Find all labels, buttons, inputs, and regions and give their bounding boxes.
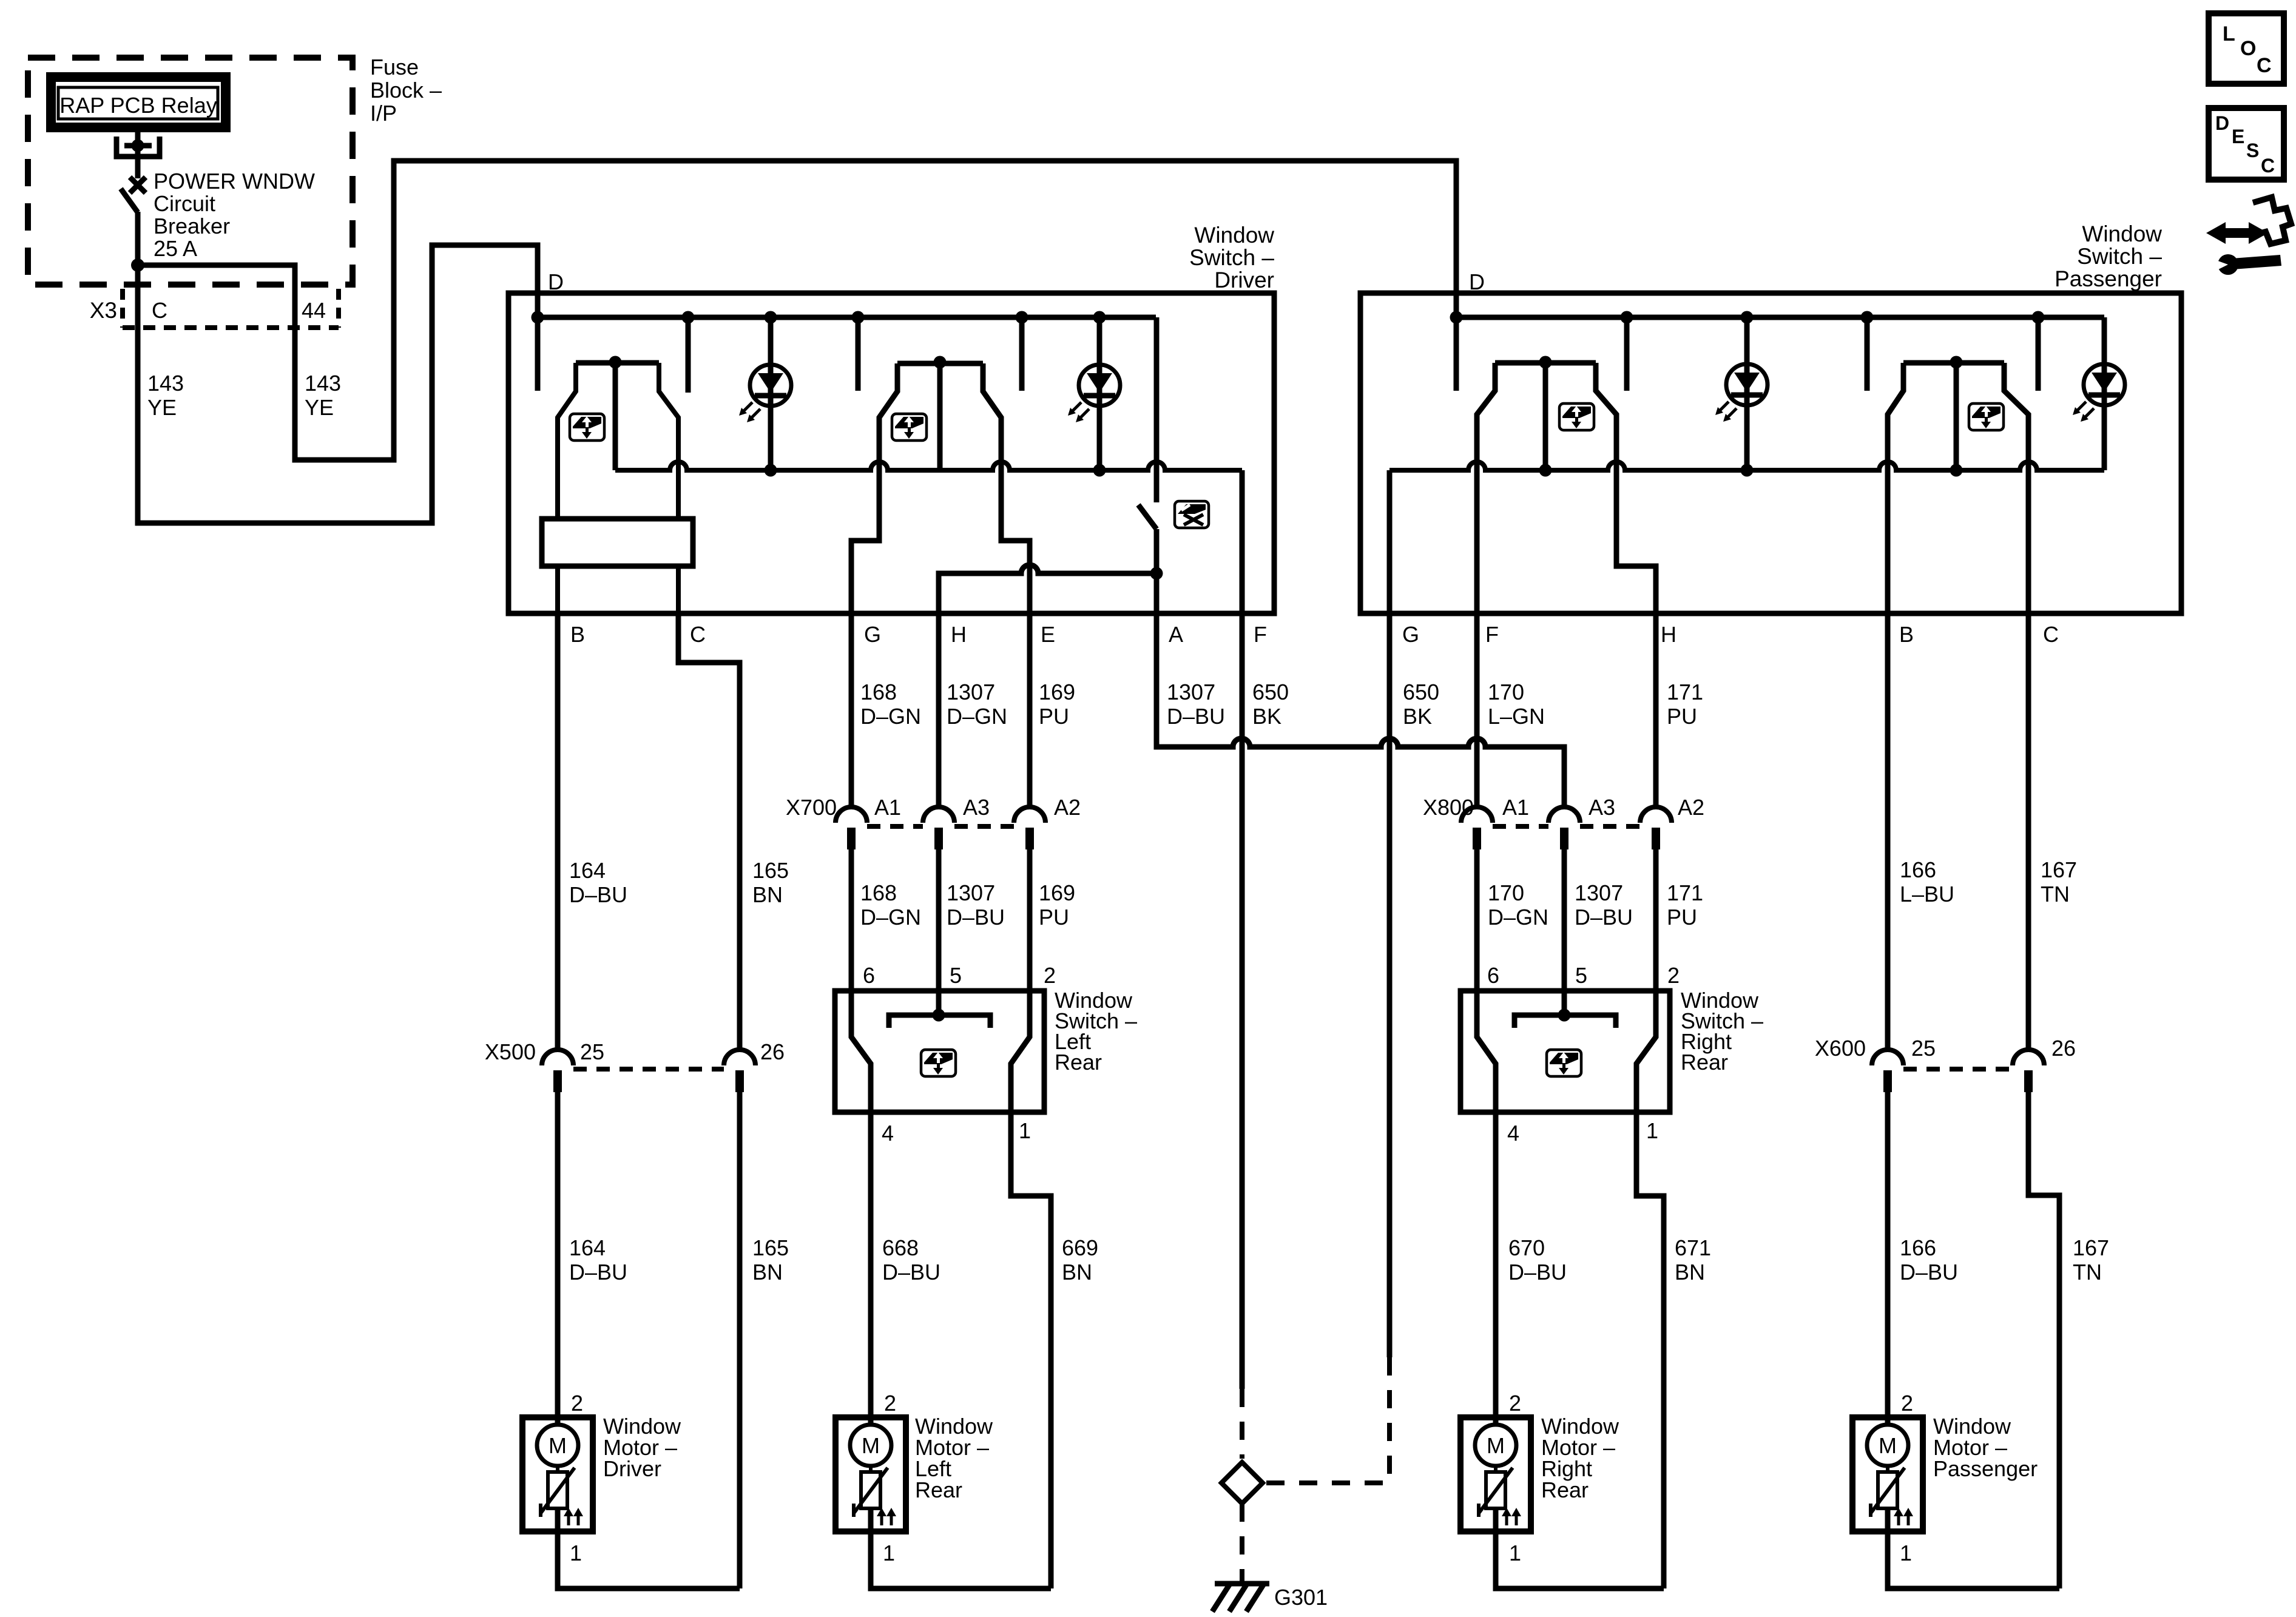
wire to driver switch D [138,245,538,523]
svg-text:A1: A1 [1502,795,1529,820]
wire 171 PU (H passenger) [1653,613,1659,807]
Window Motor - Right Rear [1493,1417,1499,1426]
svg-text:166: 166 [1900,1235,1936,1260]
svg-text:2: 2 [884,1391,896,1416]
svg-text:BN: BN [752,882,783,907]
X700 pin at 1547 [923,807,954,823]
LOC icon box [2209,13,2284,84]
splice diamond [1221,1462,1263,1504]
wire H-A 1307 net [939,565,1156,613]
svg-text:BK: BK [1252,704,1281,729]
LED passenger 1 [1726,364,1768,405]
svg-text:A2: A2 [1054,795,1081,820]
svg-text:POWER WNDW: POWER WNDW [154,169,315,194]
svg-text:PU: PU [1039,704,1069,729]
svg-text:D–GN: D–GN [860,704,921,729]
navigation arrow-wrench icon [2206,197,2291,275]
svg-text:1: 1 [1646,1118,1658,1143]
svg-text:D: D [2215,112,2229,134]
svg-text:Breaker: Breaker [154,214,230,238]
svg-text:2: 2 [1044,963,1056,988]
Window Motor - Passenger [1885,1417,1891,1426]
X600 pin 25 [1872,1050,1903,1065]
svg-text:171: 171 [1667,880,1703,905]
svg-text:669: 669 [1062,1235,1098,1260]
svg-text:Rear: Rear [1541,1477,1589,1502]
rocker switch driver window [576,360,659,366]
svg-text:D–BU: D–BU [1167,704,1225,729]
wire 650 BK (G passenger) [1387,613,1393,1357]
svg-text:E: E [2232,126,2244,147]
Window Switch - Driver box [508,293,1274,613]
svg-text:D–BU: D–BU [947,905,1005,930]
svg-text:Driver: Driver [1214,268,1274,292]
svg-text:Window: Window [1194,223,1274,248]
svg-text:Block –: Block – [370,78,442,103]
svg-text:D–BU: D–BU [569,882,627,907]
svg-text:A2: A2 [1678,795,1704,820]
svg-text:170: 170 [1488,680,1524,704]
X500 pin 25 [542,1050,573,1065]
svg-text:1307: 1307 [1575,880,1623,905]
svg-text:650: 650 [1252,680,1289,704]
svg-text:143: 143 [305,371,341,396]
connector X3 [120,289,125,328]
svg-text:2: 2 [1667,963,1680,988]
svg-text:H: H [951,622,967,647]
svg-text:H: H [1661,622,1676,647]
LED passenger 2 [2084,364,2125,405]
svg-text:Passenger: Passenger [2055,266,2162,291]
LED wire p2 [2102,317,2107,470]
svg-text:Rear: Rear [1681,1050,1728,1075]
X700 pin at 1697 [1014,807,1045,823]
passenger rocker 1 icon [1559,403,1594,430]
svg-text:668: 668 [882,1235,919,1260]
Window Motor - Driver [555,1417,561,1426]
svg-text:167: 167 [2073,1235,2109,1260]
svg-text:B: B [1899,622,1914,647]
svg-text:164: 164 [569,1235,606,1260]
svg-text:D–BU: D–BU [882,1260,940,1284]
passenger motor bottom loop [1888,1531,2059,1588]
svg-text:1: 1 [1509,1541,1521,1565]
svg-text:X3: X3 [90,298,117,323]
svg-text:165: 165 [752,858,789,883]
svg-text:165: 165 [752,1235,789,1260]
svg-text:166: 166 [1900,857,1936,882]
svg-text:5: 5 [1575,963,1587,988]
svg-text:M: M [862,1433,880,1458]
driver lower bus 650 net [615,462,1242,470]
svg-text:YE: YE [305,395,334,420]
right rear switch icon [1547,1050,1581,1076]
svg-text:25 A: 25 A [154,236,197,261]
svg-text:Switch –: Switch – [1189,245,1274,270]
wire 164 D-BU (B) [555,613,561,1050]
svg-text:C: C [690,622,706,647]
svg-text:C: C [2043,622,2059,647]
circuit breaker POWER WNDW 25A [130,177,146,193]
svg-text:TN: TN [2073,1260,2102,1284]
left rear switch icon [921,1050,956,1076]
wire 1307 D-BU (A) [1156,613,1564,807]
rocker switch driver window icon [570,414,604,441]
wire 671 BN [1636,1112,1664,1588]
svg-text:D–BU: D–BU [569,1260,627,1284]
rocker 2 icon [892,414,927,441]
lockout icon [1175,501,1209,528]
svg-text:D–GN: D–GN [947,704,1007,729]
svg-text:E: E [1041,622,1055,647]
svg-text:26: 26 [2051,1036,2076,1061]
svg-text:Rear: Rear [1055,1050,1102,1075]
svg-text:D–BU: D–BU [1575,905,1633,930]
svg-text:670: 670 [1508,1235,1545,1260]
wire 166 L-BU (B passenger) [1885,613,1891,1050]
svg-text:PU: PU [1667,704,1697,729]
wire 167 TN lower [2028,1092,2059,1588]
svg-text:D: D [1469,269,1485,294]
svg-text:C: C [152,298,167,323]
fuse block dashed outline [28,58,353,285]
svg-text:168: 168 [860,880,897,905]
svg-text:L: L [2223,22,2235,46]
svg-text:G: G [864,622,881,647]
passenger bus stubs [1454,317,1459,391]
left rear motor bottom loop [871,1531,1051,1588]
svg-text:A3: A3 [1589,795,1615,820]
svg-text:2: 2 [1901,1391,1913,1416]
svg-text:BN: BN [752,1260,783,1284]
svg-text:C: C [2261,155,2275,177]
LED wire p1 [1744,317,1750,470]
wire 669 BN [1011,1112,1051,1588]
wire to passenger switch D [138,161,1456,460]
wire 1307 D-GN (H) [936,613,942,807]
X800 pin at 2729 [1640,807,1672,823]
svg-text:TN: TN [2041,882,2070,906]
svg-text:2: 2 [571,1391,583,1416]
X500 pin 26 [724,1050,755,1065]
svg-text:Passenger: Passenger [1933,1456,2038,1481]
LED driver 1 [750,365,791,406]
RAP PCB Relay box [51,77,226,127]
svg-text:BN: BN [1062,1260,1092,1284]
driver motor bottom loop [558,1531,740,1588]
driver bus bar [538,315,1156,320]
svg-text:1: 1 [1019,1118,1031,1143]
LED driver 2 [1079,365,1120,406]
junction dot breaker output [131,258,144,272]
wire 165 BN (C) [678,613,740,1050]
svg-text:168: 168 [860,680,897,704]
svg-text:S: S [2246,140,2259,161]
svg-text:X500: X500 [485,1039,536,1064]
X800 pin at 2578 [1548,807,1580,823]
dashed to ground [1240,1504,1244,1582]
svg-text:F: F [1485,622,1499,647]
Window Switch - Passenger box [1360,293,2181,613]
svg-text:C: C [2257,54,2272,77]
wire 650 BK (F driver) [1240,613,1245,1389]
svg-text:G301: G301 [1274,1585,1328,1610]
svg-text:PU: PU [1039,905,1069,930]
relay contact [135,127,141,146]
svg-text:2: 2 [1509,1391,1521,1416]
svg-text:A1: A1 [874,795,901,820]
X700 pin at 1403 [836,807,867,823]
svg-text:Driver: Driver [603,1456,661,1481]
svg-text:B: B [570,622,585,647]
svg-text:25: 25 [580,1039,604,1064]
driver bus stubs [535,317,541,391]
svg-text:I/P: I/P [370,101,397,126]
svg-text:D–BU: D–BU [1900,1260,1958,1284]
svg-text:Window: Window [2082,221,2162,246]
svg-text:A3: A3 [963,795,990,820]
svg-text:25: 25 [1911,1036,1936,1061]
svg-text:X800: X800 [1423,795,1474,820]
svg-text:G: G [1402,622,1419,647]
svg-text:X600: X600 [1815,1036,1866,1061]
passenger rocker 2 icon [1969,403,2004,430]
svg-text:4: 4 [882,1121,894,1146]
module rectangle [542,519,693,566]
svg-text:D–GN: D–GN [1488,905,1548,930]
LED wire 1 [768,317,774,470]
svg-text:Switch –: Switch – [2077,244,2162,269]
svg-text:L–GN: L–GN [1488,704,1545,729]
svg-text:4: 4 [1507,1121,1519,1146]
dashed 650 to splice [1240,1389,1244,1459]
dashed 650 passenger branch [1387,1357,1392,1483]
svg-text:6: 6 [1487,963,1499,988]
svg-text:A: A [1169,622,1183,647]
svg-text:RAP PCB Relay: RAP PCB Relay [59,93,217,118]
svg-text:M: M [1487,1433,1505,1458]
svg-text:Fuse: Fuse [370,55,419,79]
svg-text:D–BU: D–BU [1508,1260,1567,1284]
wire 167 TN (C passenger) [2026,613,2031,1050]
svg-text:26: 26 [760,1039,785,1064]
svg-text:Circuit: Circuit [154,191,215,216]
svg-text:1307: 1307 [947,880,995,905]
wire 170 L-GN (F passenger) [1474,613,1480,807]
passenger lower bus 650 net [1389,462,2104,470]
wire 670 D-BU [1493,1112,1499,1417]
lockout switch [1154,317,1160,502]
X800 pin at 2434 [1461,807,1493,823]
ground G301 [1215,1581,1269,1587]
svg-text:167: 167 [2041,857,2077,882]
svg-text:143: 143 [147,371,184,396]
svg-text:X700: X700 [786,795,837,820]
svg-text:1: 1 [570,1541,582,1565]
svg-text:BN: BN [1675,1260,1705,1284]
svg-text:44: 44 [302,298,326,323]
svg-text:169: 169 [1039,880,1075,905]
svg-text:PU: PU [1667,905,1697,930]
svg-text:YE: YE [147,395,177,420]
svg-text:164: 164 [569,858,606,883]
X600 pin 26 [2013,1050,2044,1065]
wire 168 D-GN (G) [849,613,854,807]
svg-text:1307: 1307 [1167,680,1215,704]
svg-text:M: M [1879,1433,1897,1458]
wire 668 D-BU [868,1112,874,1417]
svg-text:1: 1 [883,1541,895,1565]
svg-text:M: M [549,1433,567,1458]
svg-text:169: 169 [1039,680,1075,704]
svg-text:671: 671 [1675,1235,1711,1260]
svg-text:171: 171 [1667,680,1703,704]
svg-text:F: F [1254,622,1267,647]
svg-text:5: 5 [950,963,962,988]
right rear motor bottom loop [1496,1531,1664,1588]
svg-text:O: O [2240,37,2256,60]
svg-text:D–GN: D–GN [860,905,921,930]
svg-text:6: 6 [863,963,875,988]
svg-text:BK: BK [1403,704,1432,729]
svg-text:D: D [548,269,564,294]
LED wire 2 [1097,317,1102,470]
svg-text:1307: 1307 [947,680,995,704]
Window Motor - Left Rear [868,1417,874,1426]
passenger bus bar [1456,315,2104,320]
svg-text:1: 1 [1900,1541,1912,1565]
rocker switch left-rear control [897,361,983,366]
rocker switch passenger window [1495,360,1596,366]
svg-text:170: 170 [1488,880,1524,905]
wire 169 PU (E) [1027,613,1033,807]
svg-text:650: 650 [1403,680,1439,704]
rocker switch right-rear control [1903,360,2004,366]
DESC icon box [2209,108,2284,180]
svg-text:L–BU: L–BU [1900,882,1954,906]
svg-text:Rear: Rear [915,1477,962,1502]
